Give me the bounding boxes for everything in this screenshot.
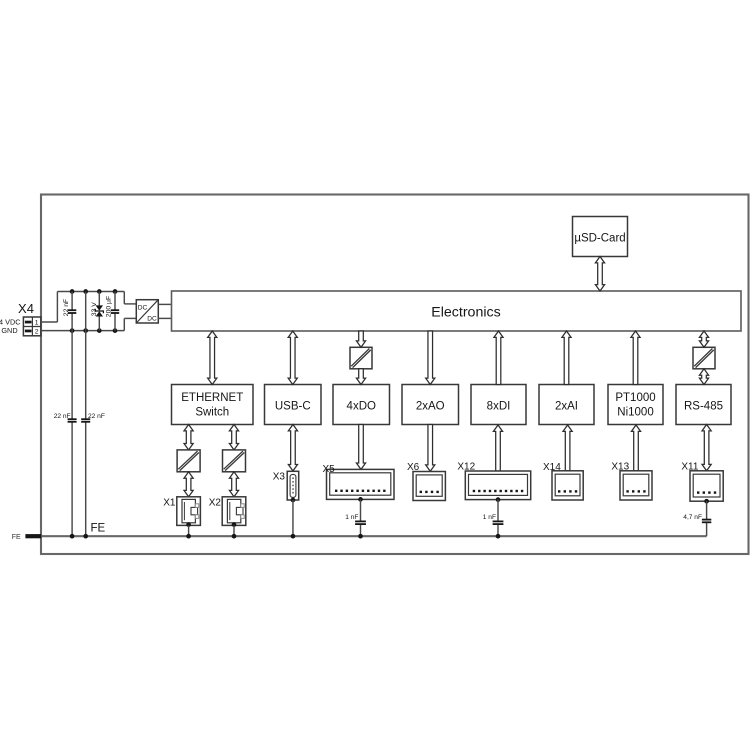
svg-text:22 nF: 22 nF [54, 413, 71, 420]
svg-text:1: 1 [35, 320, 39, 327]
svg-text:ETHERNET: ETHERNET [181, 392, 243, 404]
svg-text:USB-C: USB-C [275, 400, 311, 412]
svg-text:2xAI: 2xAI [555, 400, 578, 412]
svg-text:Ni1000: Ni1000 [617, 407, 653, 419]
svg-text:2xAO: 2xAO [416, 400, 445, 412]
svg-text:X13: X13 [611, 461, 629, 472]
svg-text:8xDI: 8xDI [487, 400, 511, 412]
svg-text:µSD-Card: µSD-Card [574, 233, 625, 245]
svg-text:4xDO: 4xDO [347, 400, 376, 412]
svg-text:RS-485: RS-485 [684, 400, 723, 412]
svg-text:33 V: 33 V [91, 302, 98, 316]
svg-text:FE: FE [91, 522, 106, 534]
svg-text:X1: X1 [163, 497, 176, 508]
svg-text:X5: X5 [323, 464, 336, 475]
svg-text:X2: X2 [209, 497, 222, 508]
svg-text:PT1000: PT1000 [615, 392, 655, 404]
svg-text:4,7 nF: 4,7 nF [683, 514, 702, 521]
svg-text:GND: GND [1, 326, 17, 335]
svg-text:X4: X4 [18, 301, 34, 316]
svg-text:Electronics: Electronics [431, 304, 500, 320]
svg-text:X14: X14 [543, 462, 561, 473]
svg-text:22 nF: 22 nF [63, 299, 70, 316]
svg-text:X11: X11 [681, 461, 698, 472]
svg-text:Switch: Switch [195, 407, 229, 419]
svg-text:1 nF: 1 nF [483, 514, 496, 521]
svg-text:22 nF: 22 nF [88, 413, 105, 420]
svg-text:X6: X6 [407, 462, 420, 473]
svg-text:1 nF: 1 nF [345, 514, 358, 521]
svg-text:FE: FE [12, 534, 21, 541]
svg-text:200 µF: 200 µF [106, 296, 113, 317]
svg-text:DC: DC [138, 304, 148, 311]
svg-text:X12: X12 [457, 461, 475, 472]
svg-text:DC: DC [147, 316, 157, 323]
svg-text:X3: X3 [273, 472, 286, 483]
svg-text:2: 2 [35, 329, 39, 336]
